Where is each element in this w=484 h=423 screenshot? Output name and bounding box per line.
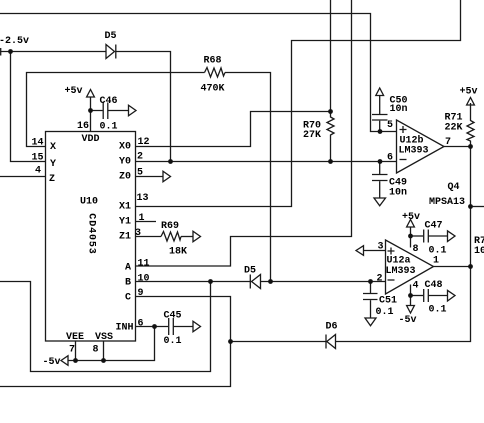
wire: D5 cathode to Y0 net [116, 52, 171, 162]
svg-text:1: 1 [433, 256, 439, 267]
svg-text:C45: C45 [164, 311, 182, 322]
svg-text:-2.5v: -2.5v [0, 36, 29, 47]
svg-text:+5v: +5v [65, 86, 83, 97]
net pointer: C45 right [193, 321, 201, 332]
svg-text:C51: C51 [379, 296, 397, 307]
svg-text:7: 7 [69, 345, 75, 356]
diode D5 (on B net, pointing left) [250, 275, 260, 289]
svg-text:15: 15 [32, 153, 44, 164]
power arrow: +5v above C46 [87, 90, 95, 98]
wire: B loop down around to left edge [0, 282, 211, 372]
junction dots [8, 49, 13, 54]
wire: pin 14 X up and over to R68 [27, 73, 205, 147]
svg-text:11: 11 [138, 259, 150, 270]
svg-text:B: B [125, 278, 131, 289]
svg-text:C47: C47 [425, 221, 443, 232]
svg-text:27K: 27K [303, 130, 321, 141]
power arrow: +5v above U12a pin 8 [407, 220, 415, 228]
net pointer: Z0 output [163, 171, 171, 182]
wire: R69 to pointer [181, 236, 193, 238]
wire: U12b output to R71 node [444, 146, 471, 148]
plus sign U12b [400, 126, 407, 133]
svg-text:10n: 10n [390, 104, 408, 115]
wire: VSS pin 8 drop [103, 341, 105, 361]
svg-text:Y1: Y1 [119, 217, 131, 228]
wire: A net from top edge down-left to pin 11 [136, 0, 352, 266]
wire: transistor base branch to right edge [471, 206, 484, 208]
power arrow: +5v above R71 [467, 98, 475, 106]
svg-text:U10: U10 [80, 197, 98, 208]
svg-text:14: 14 [32, 138, 44, 149]
svg-text:8: 8 [413, 244, 419, 255]
svg-text:Z: Z [49, 174, 55, 185]
capacitor C48 [424, 289, 429, 302]
svg-text:VEE: VEE [66, 332, 84, 343]
wire: vertical from top edge to R70 [330, 0, 332, 112]
wire: C48 row [411, 295, 424, 297]
capacitor C50 [372, 96, 388, 132]
IC U10 body [46, 132, 136, 342]
svg-text:4: 4 [35, 166, 41, 177]
net pointer: C48 right [448, 290, 456, 301]
net pointer: C47 right [448, 231, 456, 242]
svg-text:2: 2 [137, 152, 143, 163]
svg-text:13: 13 [137, 193, 149, 204]
resistor R70 [327, 112, 334, 162]
wire: B pin 10 to D5 cathode [136, 281, 251, 283]
svg-text:U12a: U12a [387, 256, 411, 267]
wire: INH drop to -5v rail [68, 327, 155, 361]
svg-text:22K: 22K [445, 123, 463, 134]
svg-text:Z0: Z0 [119, 172, 131, 183]
wire: X1 pin 13 up and right to top edge at x=460 [136, 0, 461, 207]
resistor R69 [161, 232, 181, 242]
wire: Y0 / U12b pin 6 net [136, 161, 397, 163]
svg-text:VDD: VDD [82, 134, 100, 145]
power arrow: -5v left pointer [61, 356, 68, 366]
svg-text:Y: Y [50, 159, 56, 170]
svg-text:9: 9 [138, 288, 144, 299]
wire: INH pin 6 to C45 [136, 326, 169, 328]
svg-text:C46: C46 [100, 96, 118, 107]
capacitor C46 [103, 103, 108, 120]
svg-text:MPSA13: MPSA13 [429, 197, 465, 208]
svg-text:+5v: +5v [402, 212, 420, 223]
wire: D5 anode to U12a pin 2 [261, 281, 386, 283]
svg-text:A: A [125, 263, 131, 274]
capacitor C45 [169, 318, 174, 335]
op-amp U1 2b triangle [397, 120, 445, 173]
svg-text:C: C [125, 293, 131, 304]
svg-text:D5: D5 [105, 31, 117, 42]
minus sign U12b [400, 159, 407, 161]
wire: X0 pin 12 up and right to R70 node [136, 112, 331, 147]
svg-text:Z1: Z1 [119, 232, 131, 243]
svg-text:D5: D5 [244, 266, 256, 277]
wire: pin 4 Z to left edge [0, 176, 46, 178]
svg-text:12: 12 [138, 137, 150, 148]
capacitor C49 [372, 162, 388, 199]
minus sign U12a [388, 279, 395, 281]
wire: R68 right side down to B net [225, 73, 271, 282]
svg-text:INH: INH [116, 323, 134, 334]
svg-text:7: 7 [445, 137, 451, 148]
wire: Z0 pin 5 stub [136, 176, 164, 178]
svg-text:X0: X0 [119, 142, 131, 153]
diode D6 (pointing left) [326, 335, 336, 349]
svg-text:+5v: +5v [460, 87, 478, 98]
wire: C net branch to D6 [231, 341, 326, 343]
svg-text:18K: 18K [169, 247, 187, 258]
svg-text:LM393: LM393 [386, 266, 416, 277]
svg-text:5: 5 [387, 120, 393, 131]
svg-text:C48: C48 [425, 280, 443, 291]
svg-text:D6: D6 [326, 322, 338, 333]
wire: C45 to pointer [174, 326, 194, 328]
svg-text:R68: R68 [204, 56, 222, 67]
svg-text:6: 6 [387, 153, 393, 164]
svg-text:CD4053: CD4053 [86, 213, 97, 254]
svg-text:5: 5 [137, 168, 143, 179]
svg-text:16: 16 [77, 121, 89, 132]
svg-text:3: 3 [135, 228, 141, 239]
wire: +5v into pin 16, C46 tap [91, 97, 103, 132]
svg-text:0.1: 0.1 [376, 307, 394, 318]
svg-text:10: 10 [474, 246, 484, 257]
svg-text:0.1: 0.1 [164, 336, 182, 347]
diode D5 (top) [106, 45, 116, 59]
svg-text:3: 3 [378, 242, 384, 253]
svg-text:Q4: Q4 [448, 182, 460, 193]
wire: C pin 9 down to left edge [0, 297, 231, 387]
plus sign U12a [388, 248, 395, 255]
svg-text:2: 2 [377, 274, 383, 285]
net pointer: R69 output [193, 231, 201, 242]
wire: -2.5v branch to pin 15 Y [11, 52, 46, 162]
svg-text:1: 1 [139, 213, 145, 224]
svg-text:-5v: -5v [399, 315, 417, 326]
svg-text:470K: 470K [201, 84, 225, 95]
wire: Y1 pin 1 stub [136, 221, 157, 223]
wire: C47 row [411, 235, 424, 237]
wire: VEE pin 7 drop [75, 341, 77, 361]
svg-text:10: 10 [138, 274, 150, 285]
capacitor C51 [363, 282, 378, 319]
svg-text:4: 4 [413, 281, 419, 292]
svg-text:0.1: 0.1 [429, 305, 447, 316]
wire: C47 to pointer [429, 235, 448, 237]
wire: U12a output to bus [434, 266, 471, 268]
wire: U12a pin 4 drop [410, 285, 412, 306]
net pointer: C46 right [129, 105, 137, 116]
power arrow: +5v above C50 [376, 88, 384, 96]
power arrow: -5v below pin 4 [407, 306, 415, 314]
wire: Z1 pin 3 stub to R69 [136, 236, 162, 238]
svg-text:X: X [50, 142, 56, 153]
op-amp U12a triangle [386, 240, 434, 294]
wire: C46 to pointer [108, 110, 129, 112]
ground symbol below C51 [365, 318, 376, 326]
svg-text:8: 8 [93, 345, 99, 356]
svg-text:0.1: 0.1 [100, 122, 118, 133]
svg-text:Y0: Y0 [119, 157, 131, 168]
svg-text:10n: 10n [389, 188, 407, 199]
net pointer: U12a pin 3 input [356, 246, 364, 256]
ground symbol below C49 [374, 198, 386, 206]
resistor R68 [205, 68, 226, 78]
wire: -2.5v rail to D5 anode [0, 48, 106, 56]
svg-text:R69: R69 [161, 221, 179, 232]
svg-text:LM393: LM393 [399, 146, 429, 157]
wire: pin 8 drop into U12a [410, 227, 412, 248]
wire: pin 3 to U12a [364, 250, 386, 252]
wire: top bus from left edge down to U12b pin 5 [0, 14, 397, 132]
wire: C48 to pointer [429, 295, 448, 297]
svg-text:6: 6 [138, 319, 144, 330]
resistor R71 [467, 103, 474, 146]
capacitor C47 [424, 230, 429, 243]
svg-text:-5v: -5v [43, 357, 61, 368]
wire: D6 anode right and up the output bus [336, 146, 471, 342]
svg-text:VSS: VSS [95, 332, 113, 343]
svg-text:X1: X1 [119, 202, 131, 213]
